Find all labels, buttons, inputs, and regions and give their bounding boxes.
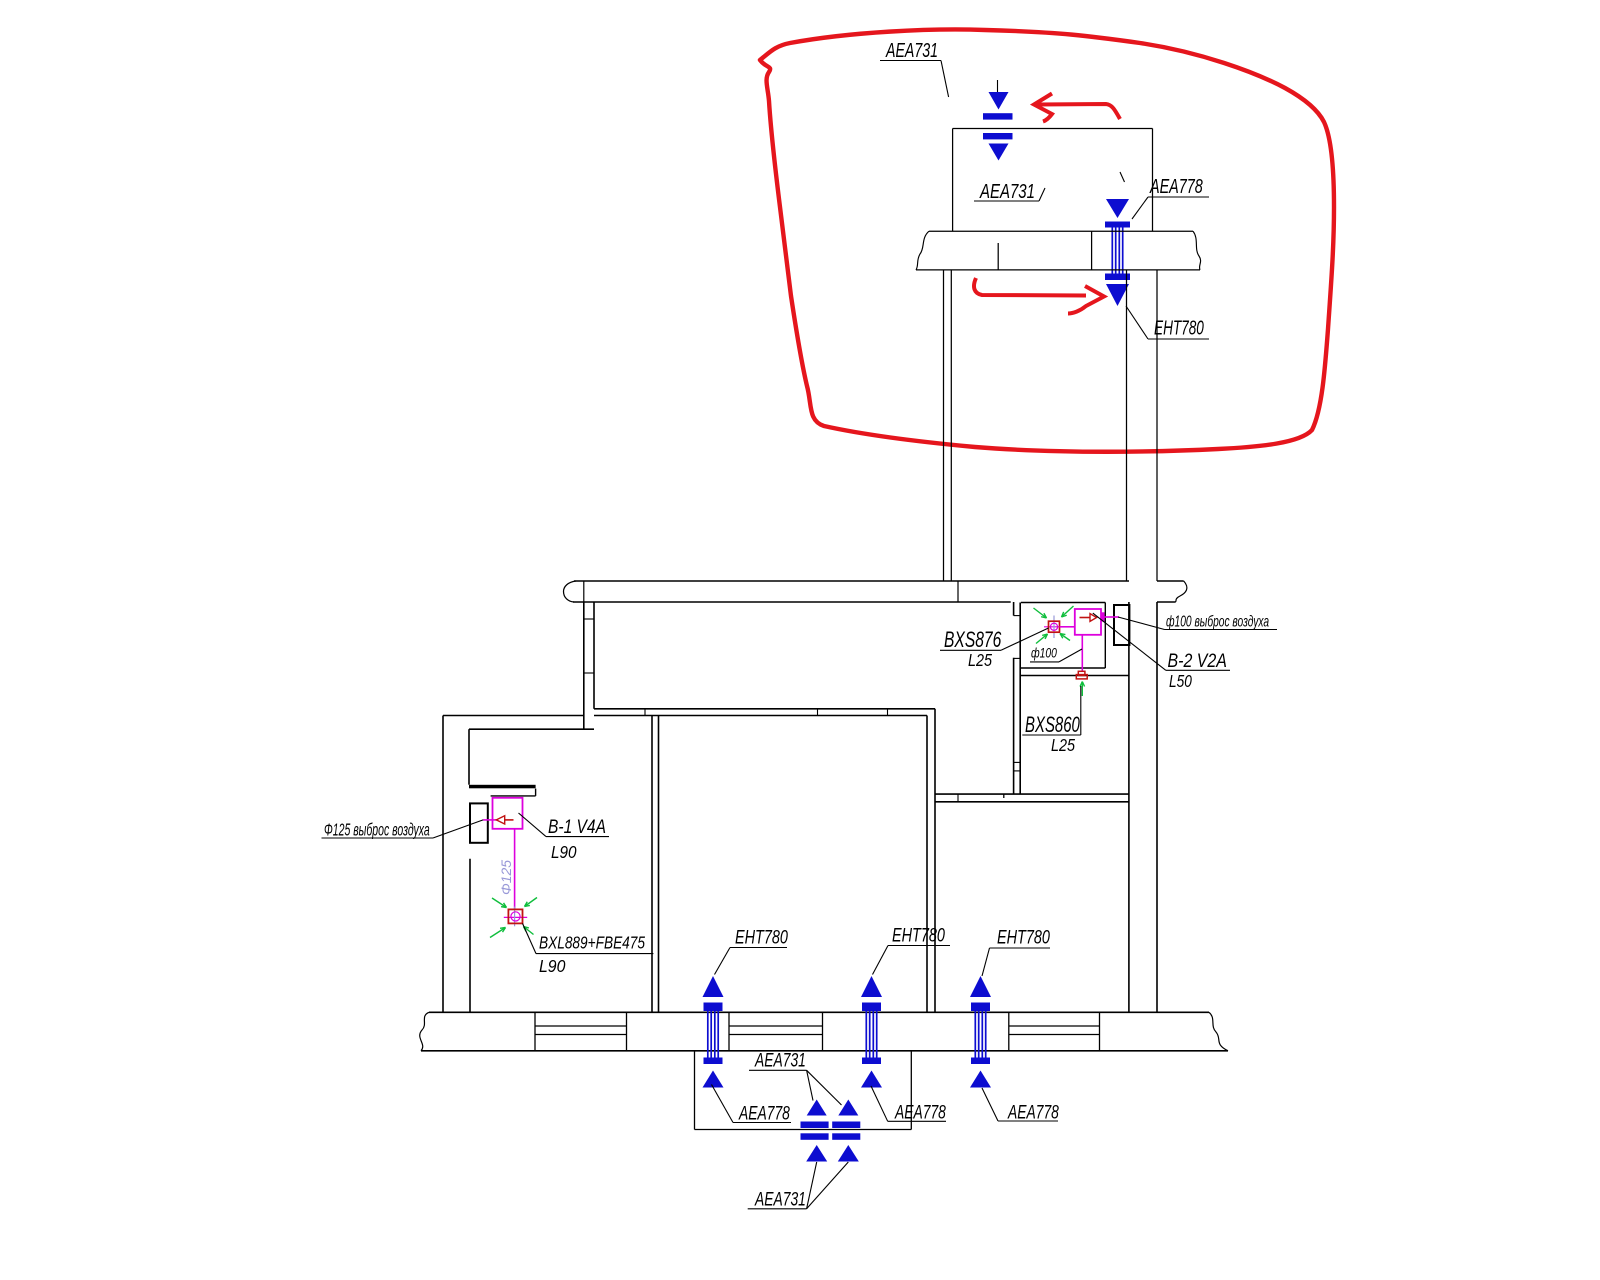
label AEA778 no.2 — [871, 1086, 946, 1123]
fan B-1 box — [493, 798, 523, 829]
riser pair left (duct lines down to plan) — [944, 270, 952, 581]
top exterior wall — [564, 581, 1130, 602]
label ф100 — [1030, 645, 1082, 662]
svg-text:L90: L90 — [539, 956, 566, 976]
duct grille-to-fan (magenta) — [1060, 626, 1075, 628]
svg-text:ф100: ф100 — [1031, 645, 1057, 661]
svg-text:AEA778: AEA778 — [1149, 175, 1203, 198]
svg-text:BXL889+FBE475: BXL889+FBE475 — [539, 934, 645, 953]
label AEA731 (balcony upper) — [749, 1049, 842, 1105]
twin valve AEA731 (balcony, right) — [832, 1100, 860, 1162]
svg-text:EHT780: EHT780 — [1154, 317, 1204, 339]
svg-text:L50: L50 — [1169, 672, 1192, 691]
wall stub left (entry wall with door ticks) — [584, 602, 594, 729]
label EHT780 no.2 — [873, 925, 951, 975]
label B-2 V2A / L50 — [1093, 613, 1230, 691]
svg-text:BXS860: BXS860 — [1025, 712, 1080, 737]
fan B-1 arrow (dark red, pointing left) — [496, 816, 513, 824]
central room right wall — [927, 709, 935, 1013]
central room top wall — [594, 709, 935, 716]
duct stub above roof valve — [997, 80, 999, 93]
duct Ф100 vertical (magenta) — [1081, 635, 1083, 672]
grille BXS860 (red, through floor) — [1076, 671, 1087, 679]
left exterior wall — [442, 716, 444, 1013]
right exterior wall — [1157, 581, 1187, 1012]
label BXL889+FBE475 — [523, 923, 654, 976]
tick above AEA778 valve — [1120, 172, 1125, 182]
vent shaft block (left room) — [470, 803, 488, 842]
svg-text:AEA731: AEA731 — [979, 180, 1035, 203]
svg-text:EHT780: EHT780 — [892, 925, 945, 946]
label AEA778 — [1132, 175, 1209, 219]
label Ф125 выброс воздуха — [322, 820, 484, 840]
label AEA731 (bottom) — [748, 1162, 849, 1210]
slab/duct band (section) — [916, 231, 1201, 270]
corridor shaft left wall — [1128, 602, 1130, 1012]
label AEA778 no.3 — [982, 1088, 1059, 1123]
red arrow right (flow annotation) — [974, 278, 1104, 314]
svg-text:L25: L25 — [1051, 736, 1076, 756]
svg-text:ф100 выброс воздуха: ф100 выброс воздуха — [1166, 612, 1269, 630]
svg-text:L25: L25 — [968, 651, 993, 671]
riser pair right (duct lines down to plan) — [1127, 270, 1158, 581]
bottom exterior wall — [420, 1012, 1228, 1051]
svg-text:AEA778: AEA778 — [1007, 1101, 1059, 1123]
fan B-2 outlet stub (magenta) — [1101, 612, 1120, 621]
label EHT780 (section) — [1126, 306, 1209, 339]
window 1 (left room) — [535, 1012, 627, 1051]
label ф100 выброс воздуха — [1118, 612, 1277, 630]
svg-text:AEA731: AEA731 — [754, 1049, 806, 1071]
twin valve AEA731 (balcony, left) — [801, 1100, 829, 1162]
bathroom walls — [1021, 603, 1130, 676]
duct joint line — [1091, 231, 1093, 270]
svg-text:B-2 V2A: B-2 V2A — [1168, 650, 1227, 672]
duct joint tick — [997, 243, 999, 270]
red freehand marker loop — [760, 30, 1334, 452]
svg-text:AEA778: AEA778 — [894, 1101, 946, 1123]
svg-text:AEA731: AEA731 — [754, 1188, 806, 1210]
label EHT780 no.1 — [715, 927, 789, 975]
label B-1 V4A — [519, 813, 610, 862]
red arrow left (flow annotation) — [1034, 94, 1120, 122]
label Ф125 (vertical, pale) — [498, 860, 514, 895]
label AEA778 no.1 — [712, 1085, 792, 1125]
label AEA731 (mid, in room) — [974, 180, 1045, 203]
valve AEA778 through slab (triangle, bars, striped rod) — [1105, 199, 1130, 306]
valve AEA731 roof (triangle-bar pair) — [983, 92, 1013, 161]
valve EHT780 no.2 (through bottom wall) — [861, 976, 882, 1088]
svg-text:B-1 V4A: B-1 V4A — [548, 816, 606, 838]
fan B-2 box — [1075, 609, 1101, 635]
svg-text:Φ125: Φ125 — [498, 860, 514, 895]
valve EHT780 no.1 (through bottom wall) — [703, 976, 724, 1088]
interior wall between left room and central room — [652, 716, 659, 1013]
grille BXS876 (red square + crosshair) — [1044, 616, 1066, 639]
svg-text:EHT780: EHT780 — [997, 927, 1050, 948]
left inner wall line — [469, 729, 470, 1012]
green intake arrows at BXS876 — [1034, 606, 1074, 644]
hall/bedroom wall (horizontal) — [935, 794, 1129, 802]
duct into shaft (magenta) — [483, 819, 498, 821]
green intake arrows at BXL889 — [490, 898, 537, 938]
green arrow up at BXS860 — [1080, 682, 1084, 697]
svg-text:L90: L90 — [551, 842, 577, 862]
balcony outline — [695, 1051, 912, 1130]
svg-text:BXS876: BXS876 — [944, 629, 1002, 653]
label AEA731 (roof valve) — [880, 39, 949, 97]
vent shaft block (bathroom) — [1114, 605, 1129, 645]
hallway east wall (with door openings) — [1014, 602, 1021, 794]
grille BXL889 (red square + crosshair) — [504, 907, 527, 927]
fan B-2 arrow (dark red, pointing right) — [1080, 614, 1097, 622]
duct Ф125 vertical (magenta) — [514, 829, 516, 909]
room section rectangle (upper floor) — [953, 129, 1153, 232]
svg-text:EHT780: EHT780 — [735, 927, 788, 948]
upper-left room top wall — [443, 716, 594, 730]
label EHT780 no.3 — [982, 927, 1050, 976]
svg-text:Φ125 выброс воздуха: Φ125 выброс воздуха — [324, 821, 430, 840]
label BXS860 / L25 — [1022, 686, 1081, 755]
label BXS876 / L25 — [940, 628, 1049, 670]
window 3 (bedroom) — [1009, 1012, 1100, 1051]
svg-text:AEA731: AEA731 — [885, 39, 938, 62]
window 2 (central room) — [729, 1012, 823, 1051]
valve EHT780 no.3 (through bottom wall) — [970, 976, 991, 1088]
closet wall (thick) with notch — [469, 785, 536, 796]
svg-text:AEA778: AEA778 — [738, 1102, 790, 1124]
